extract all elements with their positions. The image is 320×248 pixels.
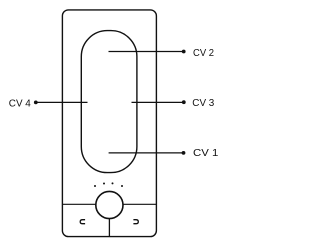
svg-text:CV 3: CV 3 bbox=[192, 98, 214, 109]
svg-text:CV 1: CV 1 bbox=[193, 148, 219, 159]
svg-text:CV 2: CV 2 bbox=[193, 48, 214, 59]
svg-text:CV 4: CV 4 bbox=[9, 98, 31, 109]
